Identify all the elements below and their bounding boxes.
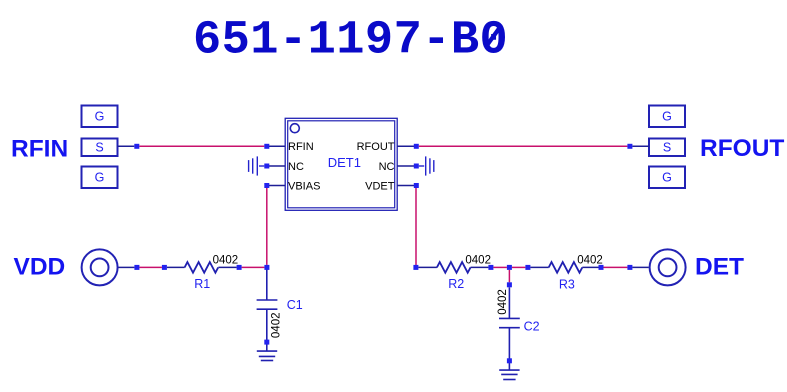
svg-text:VDET: VDET (365, 180, 395, 192)
svg-text:NC: NC (379, 161, 395, 173)
svg-text:DET: DET (695, 254, 744, 281)
svg-text:DET1: DET1 (328, 155, 361, 170)
svg-text:NC: NC (288, 161, 304, 173)
svg-text:S: S (663, 141, 671, 155)
svg-text:0402: 0402 (497, 289, 509, 315)
svg-text:R3: R3 (559, 277, 575, 291)
svg-text:VBIAS: VBIAS (288, 180, 320, 192)
svg-text:C2: C2 (524, 319, 540, 333)
svg-text:G: G (662, 171, 672, 185)
svg-text:0402: 0402 (465, 255, 491, 267)
svg-text:0402: 0402 (577, 255, 603, 267)
svg-text:RFIN: RFIN (11, 136, 68, 163)
svg-text:C1: C1 (287, 298, 303, 312)
svg-text:RFIN: RFIN (288, 141, 314, 153)
svg-text:651-1197-B0: 651-1197-B0 (193, 15, 508, 68)
svg-text:R1: R1 (194, 277, 210, 291)
svg-text:RFOUT: RFOUT (700, 135, 784, 162)
svg-text:R2: R2 (448, 277, 464, 291)
svg-text:G: G (662, 110, 672, 124)
svg-text:0402: 0402 (213, 255, 239, 267)
svg-text:RFOUT: RFOUT (357, 141, 395, 153)
svg-text:G: G (95, 171, 105, 185)
svg-text:G: G (95, 110, 105, 124)
svg-text:0402: 0402 (271, 313, 283, 339)
svg-text:VDD: VDD (14, 254, 66, 281)
svg-text:S: S (95, 141, 103, 155)
